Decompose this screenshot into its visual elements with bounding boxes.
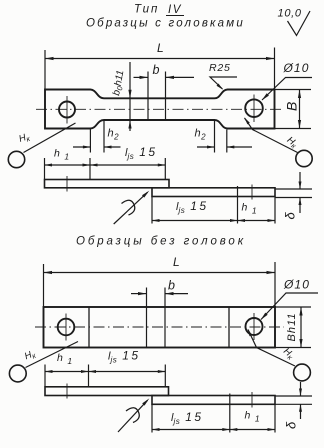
leader Hk left (specimen 1) xyxy=(24,123,76,153)
leader dia10 (specimen 1) xyxy=(262,78,312,101)
bottom plate (side view 2) xyxy=(152,396,275,405)
svg-text:Вh11: Вh11 xyxy=(286,312,298,341)
roughness symbol xyxy=(288,11,311,36)
h2 left extension lines xyxy=(89,130,91,153)
svg-text:ljs15: ljs15 xyxy=(125,145,158,161)
dimension b0h11 line xyxy=(129,62,131,131)
dimension Bh11 line xyxy=(300,307,302,348)
overlap line left (specimen 2) xyxy=(88,307,90,348)
svg-text:ljs15: ljs15 xyxy=(176,199,209,215)
dimension B extension lines xyxy=(275,89,312,91)
hole right centermark (specimen 2) xyxy=(253,313,255,340)
leader Hk left (specimen 2) xyxy=(26,342,79,368)
Hk circle right (specimen 2) xyxy=(294,364,311,381)
bottom plate (side view 1) xyxy=(152,188,275,197)
hole centermark on bottom plate (side 1) xyxy=(251,185,253,200)
dimension L extension lines (specimen 1) xyxy=(44,50,46,89)
Hk circle left (specimen 1) xyxy=(8,151,24,167)
dimension h2 left line xyxy=(73,146,90,148)
svg-text:L: L xyxy=(173,255,180,269)
Hk circle left (specimen 2) xyxy=(9,365,26,382)
b gauge marks (specimen 1) xyxy=(147,72,149,121)
svg-text:h2: h2 xyxy=(195,128,207,142)
top plate (side view 2) xyxy=(45,387,169,396)
svg-text:ljs15: ljs15 xyxy=(108,349,141,365)
dimension B line xyxy=(299,90,301,129)
dimension b line (specimen 1) xyxy=(134,76,149,78)
h2 right extension lines xyxy=(214,121,216,153)
hole centermark on top plate (side 2) xyxy=(66,384,68,399)
svg-text:δ: δ xyxy=(283,212,298,220)
dimension h1 line (side 1) xyxy=(45,164,91,166)
dimension ljs15 lower line (side 2) xyxy=(152,429,230,431)
svg-text:В: В xyxy=(284,102,300,111)
side view 2 lower extension lines xyxy=(151,404,153,432)
hole centermark on top plate (side 1) xyxy=(66,176,68,192)
top plate (side view 1) xyxy=(45,180,170,188)
centerline (specimen 2) xyxy=(35,326,284,328)
overlap line right (specimen 2) xyxy=(228,307,230,348)
svg-text:Нк: Нк xyxy=(23,348,38,363)
svg-text:h1: h1 xyxy=(57,352,72,366)
dimension L line (specimen 1) xyxy=(45,58,275,60)
dimension h1 lower line (side 2) xyxy=(230,429,275,431)
svg-text:L: L xyxy=(157,41,164,55)
dimension L extension lines (specimen 2) xyxy=(43,264,45,307)
weld arrow (side 1) xyxy=(114,192,148,224)
svg-text:ljs15: ljs15 xyxy=(171,410,204,426)
weld symbol arc (side 2) xyxy=(126,408,139,423)
svg-text:h1: h1 xyxy=(242,202,257,216)
dimension h2 right line xyxy=(197,146,215,148)
hole left centermark (specimen 2) xyxy=(65,314,67,341)
dimension h1 line (side 2) xyxy=(45,371,89,373)
svg-text:h1: h1 xyxy=(54,148,69,162)
side view 2 dimension extension lines xyxy=(44,365,46,387)
hole centermark on bottom plate (side 2) xyxy=(251,392,253,408)
b gauge marks (specimen 2) xyxy=(146,288,148,348)
svg-text:δ: δ xyxy=(284,421,299,429)
svg-text:b: b xyxy=(153,63,160,77)
hole right vertical centermark xyxy=(253,95,255,123)
dimension b line (specimen 2) xyxy=(131,293,147,295)
svg-text:R25: R25 xyxy=(209,62,231,74)
leader Hk right (specimen 1) xyxy=(245,118,298,153)
hole right (specimen 1) xyxy=(245,99,263,117)
svg-text:Ø10: Ø10 xyxy=(283,278,310,292)
leader dia10 (specimen 2) xyxy=(261,293,318,320)
side view 1 dimension extension lines xyxy=(44,158,46,180)
dimension Bh11 extension lines xyxy=(275,306,311,308)
svg-text:Образцы с головками: Образцы с головками xyxy=(86,18,245,30)
hole left (specimen 2) xyxy=(58,319,75,336)
svg-text:Ø10: Ø10 xyxy=(283,61,310,75)
dimension ljs15 line (side 1) xyxy=(90,164,165,166)
side view 1 lower extension lines xyxy=(151,197,153,224)
dimension h1 lower line (side 1) xyxy=(238,220,276,222)
specimen 2 outline (plain strap) xyxy=(44,307,276,348)
svg-text:h2: h2 xyxy=(108,128,120,142)
svg-text:b: b xyxy=(168,279,175,293)
leader Hk right (specimen 2) xyxy=(248,330,295,367)
dimension L line (specimen 2) xyxy=(44,272,276,274)
dimension delta line (side 1) xyxy=(299,172,301,189)
hole right (specimen 2) xyxy=(246,318,263,335)
svg-text:Нк: Нк xyxy=(18,131,32,146)
specimen 1 outline (dogbone with heads) xyxy=(45,90,275,129)
svg-text:Нк: Нк xyxy=(284,135,300,151)
delta extension lines (side 1) xyxy=(275,188,312,190)
svg-text:10,0: 10,0 xyxy=(278,8,302,20)
svg-text:b0h11: b0h11 xyxy=(111,69,127,96)
Hk circle right (specimen 1) xyxy=(296,150,312,166)
dimension ljs15 line (side 2) xyxy=(89,371,166,373)
dimension delta line (side 2) xyxy=(300,382,302,396)
hole left vertical centermark xyxy=(66,96,68,124)
svg-text:h1: h1 xyxy=(245,410,260,424)
hole left (specimen 1) xyxy=(59,102,75,118)
weld arrow (side 2) xyxy=(118,400,148,432)
centerline (specimen 1) xyxy=(36,108,284,110)
weld symbol arc (side 1) xyxy=(122,200,135,215)
svg-text:Образцы без головок: Образцы без головок xyxy=(76,236,246,248)
svg-text:Тип: Тип xyxy=(134,4,159,16)
svg-text:IV: IV xyxy=(168,4,182,16)
delta extension lines (side 2) xyxy=(275,395,312,397)
dimension ljs15 lower line (side 1) xyxy=(152,220,238,222)
leader R25 xyxy=(210,77,237,89)
